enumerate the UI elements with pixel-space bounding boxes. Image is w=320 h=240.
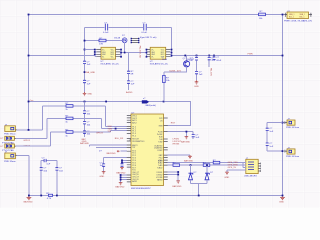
- svg-text:USB_MICRO: USB_MICRO: [244, 175, 257, 177]
- MCU left pin labels: [132, 116, 145, 184]
- svg-text:BATGND: BATGND: [181, 141, 190, 144]
- wire top cap rail y=27: [85, 27, 172, 29]
- svg-text:GND: GND: [224, 177, 229, 179]
- diode D6 clamp: [206, 164, 208, 166]
- capacitor C21: [121, 164, 124, 166]
- resistor R8: [173, 164, 180, 167]
- wire MCU pin y=155 to gnd: [168, 154, 190, 156]
- svg-text:1uF: 1uF: [211, 60, 215, 62]
- svg-text:TxBD2: TxBD2: [157, 167, 162, 169]
- transistor Q1: [184, 55, 186, 57]
- wire BSL rows into MCU: [89, 145, 127, 147]
- wire USB pin bus: [243, 163, 246, 171]
- svg-text:1nF: 1nF: [199, 74, 203, 76]
- ground BATGND 2: [188, 155, 192, 159]
- MCU right pin stubs: [164, 118, 168, 180]
- svg-text:1uF: 1uF: [189, 60, 193, 62]
- wire right vertical trunk: [282, 15, 284, 196]
- wire MCU right pin to cap/gnd: [168, 132, 194, 140]
- svg-text:PxCB2: PxCB2: [157, 134, 162, 136]
- wire U2 left pin bus: [145, 50, 147, 57]
- svg-text:BSL_RX: BSL_RX: [115, 138, 124, 140]
- wire w1 staircase: [17, 106, 127, 130]
- capacitor C9 at x=209: [208, 55, 210, 57]
- wire MCU pins to cap chain B: [122, 160, 127, 167]
- capacitor C16 right column: [266, 143, 269, 145]
- svg-text:0.1uF: 0.1uF: [103, 32, 109, 34]
- wire mid rail y=101 with corner to MCU pin: [29, 102, 191, 126]
- capacitor C8 at x=196.5 lower: [195, 71, 198, 73]
- svg-text:1N-58: 1N-58: [114, 38, 121, 40]
- svg-text:GND: GND: [99, 176, 104, 178]
- wire rail y=55 left segment: [29, 55, 95, 57]
- wire diode down to row: [124, 43, 126, 53]
- capacitor C3 on spine: [83, 61, 86, 63]
- ground small near pin 151: [121, 150, 127, 152]
- svg-text:PWD N/nan: PWD N/nan: [4, 161, 16, 163]
- capacitor C11 column below rail: [84, 102, 86, 138]
- wire DAC row a: [168, 162, 244, 164]
- wire left spine x=84: [84, 28, 86, 93]
- wire MCU pin to C and GND chain A: [104, 158, 127, 172]
- svg-text:4(pin DIN TL wh): 4(pin DIN TL wh): [140, 37, 157, 39]
- svg-text:MSP430FR6043IPZ: MSP430FR6043IPZ: [131, 188, 151, 190]
- svg-text:P1.4: P1.4: [132, 136, 136, 138]
- wire Q1 emitter to SDWL: [164, 67, 187, 102]
- wire DAC row b: [168, 164, 244, 166]
- capacitor C15 right column: [266, 128, 269, 130]
- resistor R3 pulldown: [163, 75, 166, 82]
- svg-text:1uF: 1uF: [87, 83, 91, 85]
- wire bottom-left cap block top link: [41, 161, 57, 196]
- svg-text:PA_3V3_SD: PA_3V3_SD: [139, 46, 142, 59]
- svg-text:10uH: 10uH: [162, 59, 168, 61]
- svg-text:GPIO3: GPIO3: [96, 133, 103, 135]
- wire w4 connector to ground rail: [17, 155, 29, 195]
- ground BATGND 3: [176, 181, 180, 183]
- svg-text:RST: RST: [171, 122, 176, 124]
- MCU left pin stubs: [127, 116, 131, 182]
- MCU right pin labels: [154, 118, 163, 181]
- svg-text:PA_3V6: PA_3V6: [209, 68, 212, 77]
- svg-text:GND: GND: [279, 202, 284, 204]
- svg-text:PWD NC/nan: PWD NC/nan: [286, 156, 300, 158]
- wire USB third row to gnd: [227, 170, 243, 172]
- resistor R10 inline on ground rail: [48, 194, 52, 196]
- svg-text:BATGND: BATGND: [184, 159, 193, 162]
- svg-text:P1.2: P1.2: [132, 130, 136, 132]
- svg-text:TDI: TDI: [107, 131, 111, 133]
- capacitor C17 inline: [44, 159, 46, 162]
- wire bottom ground rail: [29, 195, 283, 197]
- svg-text:BATGND: BATGND: [107, 152, 116, 155]
- wire MCU bottom right pins to gnd: [168, 172, 179, 181]
- wire right cap branch: [267, 123, 282, 152]
- bottom rail junction dots: [28, 195, 30, 197]
- resistor R4 on w1: [66, 105, 73, 108]
- svg-text:AGND: AGND: [126, 91, 133, 94]
- svg-text:PWR7_GSE_TK_BATN_LIN: PWR7_GSE_TK_BATN_LIN: [284, 20, 312, 23]
- capacitor C7 at x=196.5: [196, 55, 198, 57]
- capacitor C10 at x=214: [213, 55, 215, 57]
- capacitor C14: [192, 134, 195, 136]
- ground GND below spine: [83, 92, 87, 96]
- svg-text:B1k_1: B1k_1: [289, 16, 294, 18]
- svg-text:TxB2: TxB2: [158, 141, 162, 143]
- wire rail y=55 right segment PWR: [172, 55, 283, 57]
- ground GND usb: [225, 172, 229, 174]
- capacitor C4 on spine: [83, 80, 86, 82]
- resistor R5 on w2: [66, 117, 73, 120]
- ground GND chain A: [102, 172, 106, 174]
- svg-text:1uF: 1uF: [269, 131, 273, 133]
- svg-text:1uF: 1uF: [46, 163, 50, 165]
- resistor R7: [213, 161, 220, 164]
- svg-text:1uF: 1uF: [131, 84, 135, 86]
- svg-text:BATGND: BATGND: [115, 185, 124, 188]
- ground GND below C8: [195, 80, 199, 84]
- capacitor C19 right: [55, 168, 58, 170]
- ground GND bottom right: [280, 196, 285, 199]
- svg-text:BAT(multi): BAT(multi): [146, 104, 156, 107]
- diode D5 clamp: [190, 164, 192, 166]
- node LNA_GND label: [84, 71, 86, 73]
- capacitor C13: [83, 131, 86, 133]
- no-connect cross: [130, 137, 134, 141]
- wire w2 staircase: [16, 118, 127, 138]
- svg-text:LNA_GND: LNA_GND: [85, 71, 96, 74]
- svg-text:B1k_1: B1k_1: [300, 16, 305, 18]
- power port arrow BAT: [142, 100, 149, 103]
- wire left vertical trunk: [28, 15, 30, 131]
- capacitor C20: [102, 164, 105, 166]
- wire U1 right pin bus: [120, 50, 146, 57]
- svg-text:HFXIN: HFXIN: [173, 143, 180, 145]
- wire U2 right pin bus: [170, 50, 171, 58]
- svg-text:GND: GND: [194, 86, 199, 88]
- svg-text:GPS_5V: GPS_5V: [228, 167, 237, 169]
- svg-text:RST/SBWTDIO: RST/SBWTDIO: [132, 141, 145, 143]
- svg-text:BATGND: BATGND: [172, 185, 181, 188]
- svg-text:SDWL_3V3: SDWL_3V3: [169, 70, 181, 72]
- wire J4 to trunk: [283, 122, 285, 124]
- ground BATGND bottom left: [27, 196, 32, 199]
- capacitor C5 chain below diode: [128, 53, 130, 90]
- svg-text:ISOLATED DC-DC: ISOLATED DC-DC: [101, 63, 120, 66]
- svg-text:0R: 0R: [131, 74, 134, 76]
- svg-text:GPIO1: GPIO1: [23, 140, 30, 142]
- wire top rail VBAT: [28, 14, 287, 16]
- svg-text:17B: 17B: [99, 43, 103, 45]
- svg-text:VASS3: VASS3: [157, 178, 163, 181]
- svg-text:P2.3: P2.3: [132, 157, 136, 159]
- svg-text:47uF: 47uF: [216, 60, 222, 62]
- svg-text:1nF: 1nF: [195, 137, 199, 139]
- svg-text:BSLTX: BSLTX: [132, 145, 138, 147]
- wire MCU bottom-left pins cluster: [121, 175, 127, 183]
- svg-text:PWD NC/nan: PWD NC/nan: [286, 127, 300, 129]
- capacitor C2 top inline: [144, 24, 146, 31]
- op-amp U1 isolated dc-dc left: [101, 47, 116, 59]
- ground BATGND near pin: [185, 137, 189, 139]
- ground BATGND chain C: [119, 183, 123, 185]
- jumper pin cluster with 3 stubs: [131, 39, 138, 43]
- resistor R1 on top rail: [259, 13, 266, 16]
- svg-text:COMP: COMP: [157, 150, 163, 152]
- svg-text:AVC2: AVC2: [132, 121, 136, 124]
- svg-text:GND: GND: [87, 94, 92, 96]
- ground BATGND chain B: [120, 167, 124, 169]
- wire w3 staircase: [16, 131, 127, 147]
- svg-text:0.1uF: 0.1uF: [141, 32, 147, 34]
- svg-text:BATGND: BATGND: [116, 171, 125, 174]
- svg-text:ISOLATED DC-DC: ISOLATED DC-DC: [150, 63, 169, 66]
- capacitor C12: [83, 122, 86, 124]
- svg-text:BATGND: BATGND: [80, 142, 89, 145]
- capacitor C6 chain below diode: [127, 81, 130, 83]
- op-amp U2 isolated dc-dc right: [150, 47, 166, 59]
- wire cap-rail right drop x=171.5: [171, 28, 173, 58]
- wire U1 left pin bus: [85, 50, 97, 57]
- capacitor C1 top inline: [105, 24, 107, 31]
- wire rail y=40.5: [85, 40, 123, 42]
- resistor R2 on y=40.5 rail: [99, 39, 106, 42]
- svg-text:BATGND: BATGND: [24, 201, 33, 204]
- capacitor C18 left: [40, 168, 43, 170]
- svg-text:PWD N/nan: PWD N/nan: [4, 134, 16, 136]
- svg-text:VO-: VO-: [111, 57, 115, 59]
- resistor R9: [203, 164, 210, 167]
- svg-text:1uF: 1uF: [87, 64, 91, 66]
- svg-text:1uF: 1uF: [269, 146, 273, 148]
- resistor R6 on w3: [66, 131, 73, 134]
- node rail junction dots: [28, 14, 30, 16]
- svg-text:PWR: PWR: [248, 53, 254, 55]
